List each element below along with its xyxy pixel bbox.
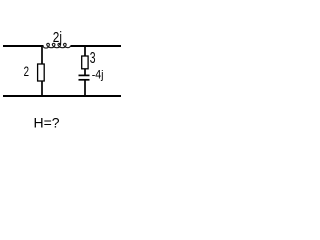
svg-text:2: 2: [24, 63, 30, 79]
svg-text:3: 3: [90, 50, 96, 67]
svg-text:2j: 2j: [53, 30, 62, 46]
svg-text:-4j: -4j: [92, 68, 104, 82]
svg-text:H=?: H=?: [34, 115, 60, 131]
